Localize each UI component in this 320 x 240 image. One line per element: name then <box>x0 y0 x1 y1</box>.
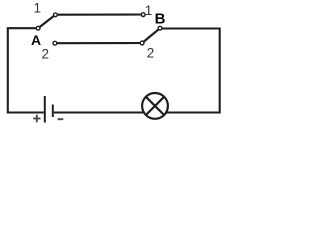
svg-text:2: 2 <box>147 46 155 61</box>
svg-text:2: 2 <box>41 46 49 61</box>
svg-text:1: 1 <box>145 3 153 18</box>
svg-text:B: B <box>155 11 166 28</box>
svg-text:1: 1 <box>34 1 42 16</box>
svg-text:A: A <box>31 32 41 48</box>
